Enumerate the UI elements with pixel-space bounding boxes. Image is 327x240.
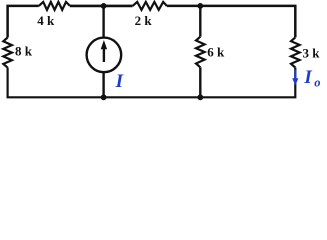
wire 6k branch lower (199, 67, 201, 97)
resistor 3 k (right edge, vertical zigzag) (291, 37, 300, 67)
svg-text:6 k: 6 k (207, 45, 225, 60)
wire top middle (4k to 2k) (70, 5, 133, 8)
wire current-source branch upper (102, 6, 104, 37)
svg-text:4 k: 4 k (37, 13, 55, 28)
wire current-source branch lower (102, 73, 104, 97)
svg-text:2 k: 2 k (135, 13, 153, 28)
svg-text:I: I (303, 67, 312, 88)
node junction dot top right (6k branch / top wire) (197, 3, 203, 9)
current arrow Io (blue, downward on 3k branch) (294, 70, 296, 79)
svg-text:3 k: 3 k (303, 45, 321, 60)
wire 6k branch upper (199, 6, 201, 37)
node junction dot bottom right (6k branch / bottom wire) (197, 94, 203, 100)
wire top-right corner (top wire from 2k + right edge upper) (167, 6, 295, 38)
wire right edge lower + bottom wire + left edge lower (8, 68, 296, 98)
node junction dot top left (current source branch / top wire) (101, 3, 107, 9)
resistor 6 k (middle branch, vertical zigzag) (196, 37, 205, 68)
svg-text:8 k: 8 k (15, 44, 33, 59)
resistor 8 k (left edge, vertical zigzag) (3, 38, 12, 68)
current source arrow (upward) (103, 48, 105, 63)
wire top-left corner (left edge upper + top wire to 4k) (8, 6, 39, 38)
node junction dot bottom left (current source branch / bottom wire) (101, 94, 107, 100)
svg-text:o: o (314, 75, 320, 89)
resistor 4 k (top left, horizontal zigzag) (39, 2, 70, 10)
current source I (circle) (87, 38, 122, 73)
resistor 2 k (top right, horizontal zigzag) (133, 2, 167, 10)
svg-text:I: I (115, 71, 124, 92)
